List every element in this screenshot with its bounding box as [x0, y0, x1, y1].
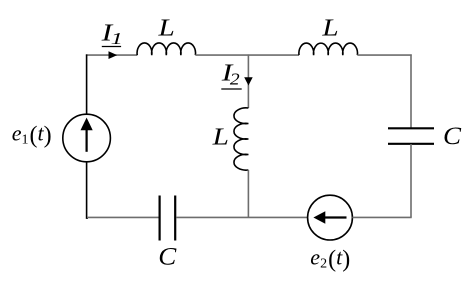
underline of I1	[102, 46, 121, 48]
svg-text:C: C	[443, 122, 462, 150]
current arrow I1 on top wire	[109, 51, 118, 59]
svg-text:L: L	[157, 14, 174, 41]
svg-text:e2(t): e2(t)	[310, 245, 350, 273]
wire left vertical upper (source lead)	[86, 54, 88, 114]
wire bottom-left segment	[87, 216, 159, 218]
underline of I2	[221, 88, 241, 90]
source e2 circle	[308, 195, 353, 240]
inductor L3 (middle vertical)	[234, 108, 248, 170]
wire top-right segment	[357, 54, 411, 56]
svg-text:L: L	[212, 123, 229, 150]
wire left vertical lower (source lead)	[87, 162, 88, 218]
wire middle vertical lower	[247, 170, 249, 217]
svg-text:1: 1	[111, 29, 123, 48]
wire bottom-middle segment	[176, 216, 307, 218]
wire right vertical lower	[410, 144, 412, 217]
svg-text:e1(t): e1(t)	[12, 120, 52, 148]
label I2	[221, 60, 240, 88]
capacitor C1 (bottom) plates	[160, 196, 176, 241]
wire bottom-right segment	[352, 216, 411, 218]
source e1 circle	[63, 114, 111, 162]
inductor L1 (top-left)	[137, 43, 195, 55]
inductor L2 (top-right)	[299, 43, 358, 55]
capacitor C2 (right) plates	[388, 128, 434, 144]
wire right vertical upper	[410, 54, 412, 128]
svg-text:2: 2	[230, 70, 240, 89]
svg-text:C: C	[158, 242, 177, 270]
wire top-left segment	[86, 54, 137, 56]
current arrow I2 on middle wire	[244, 77, 253, 85]
label I1	[100, 20, 122, 48]
wire middle vertical upper	[247, 54, 249, 108]
svg-text:L: L	[321, 14, 338, 41]
source e2 arrow	[313, 211, 346, 224]
wire top-middle segment	[195, 54, 299, 56]
source e1 arrow	[81, 118, 93, 152]
